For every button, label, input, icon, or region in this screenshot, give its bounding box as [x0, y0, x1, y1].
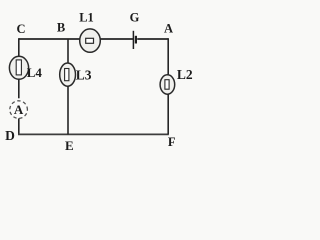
wire L3 to E — [67, 86, 69, 134]
svg-text:L1: L1 — [79, 11, 94, 25]
ammeter A — [10, 101, 28, 119]
svg-text:E: E — [65, 138, 74, 153]
wire middle vertical B to L3 — [67, 39, 69, 64]
svg-text:L3: L3 — [76, 67, 92, 82]
node C — [16, 22, 25, 36]
lamp L3 — [60, 63, 76, 86]
svg-text:G: G — [130, 11, 140, 25]
lamp L1 — [80, 29, 101, 52]
wire top C-B-L1-battery-A — [19, 38, 168, 40]
wire L2 to F corner — [167, 94, 169, 134]
svg-text:A: A — [14, 102, 24, 117]
label L3 — [76, 67, 92, 82]
node D — [5, 128, 15, 143]
wire right vertical A to L2 — [167, 38, 169, 75]
lamp L4 — [9, 56, 28, 79]
label L1 — [79, 11, 94, 25]
svg-text:L4: L4 — [27, 65, 43, 80]
node F — [168, 135, 176, 149]
wire bottom D-E-F — [18, 133, 169, 135]
node B — [57, 21, 65, 35]
svg-text:F: F — [168, 135, 176, 149]
svg-text:D: D — [5, 128, 15, 143]
label G — [130, 11, 140, 25]
svg-text:L2: L2 — [177, 67, 193, 82]
svg-text:C: C — [16, 22, 25, 36]
label L2 — [177, 67, 193, 82]
lamp L2 — [160, 75, 175, 94]
svg-text:B: B — [57, 21, 65, 35]
wire ammeter to D corner — [18, 118, 20, 135]
label L4 — [27, 65, 43, 80]
svg-text:A: A — [164, 22, 173, 36]
wire L4 to ammeter — [18, 79, 20, 98]
node E — [65, 138, 74, 153]
node A — [164, 22, 173, 36]
battery G — [133, 31, 136, 49]
wire left vertical C to L4 — [18, 38, 20, 56]
